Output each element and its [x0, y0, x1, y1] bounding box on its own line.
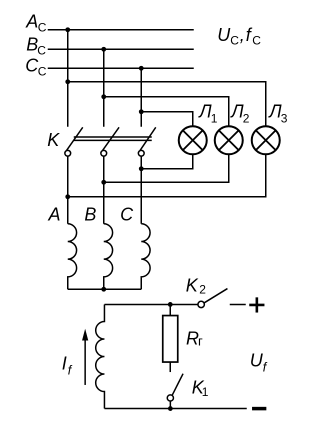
- wire vertical drop phase A: [67, 30, 69, 127]
- wire lamp3 bottom to generator A: [68, 155, 266, 197]
- field circuit bottom wire: [104, 408, 246, 410]
- switch K2: [198, 289, 246, 308]
- wire lamp1 feed from phase C: [141, 112, 193, 126]
- svg-text:f: f: [263, 360, 268, 374]
- node lamp3 return junction: [65, 194, 70, 199]
- wire bus line B: [48, 48, 194, 50]
- svg-text:1: 1: [202, 385, 209, 399]
- svg-text:K: K: [186, 275, 199, 295]
- svg-text:C: C: [38, 64, 47, 78]
- node bus B tap: [101, 47, 106, 52]
- wire lamp1 bottom to generator C: [141, 155, 193, 169]
- plus terminal: [249, 297, 264, 312]
- switch K contact circle pole A: [65, 150, 71, 156]
- svg-text:A: A: [25, 11, 38, 31]
- node lamp3 feed junction: [65, 79, 70, 84]
- lamp L2: [215, 126, 243, 154]
- switch K contact circle pole C: [138, 150, 144, 156]
- node bus A tap: [65, 27, 70, 32]
- node lamp1 return junction: [139, 166, 144, 171]
- wire lamp2 bottom to generator B: [104, 155, 229, 183]
- switch K link bar: [74, 136, 152, 138]
- svg-text:U: U: [217, 25, 231, 45]
- lamp L3: [252, 126, 280, 154]
- winding A (stator coil): [68, 224, 77, 290]
- switch K (3-pole): [67, 127, 156, 150]
- switch K contact circle pole B: [101, 150, 107, 156]
- resistor RG: [163, 304, 178, 372]
- wire star point: [68, 288, 142, 290]
- wire generator side vertical A: [67, 156, 69, 224]
- wire lamp2 feed from phase B: [104, 97, 229, 126]
- svg-text:C: C: [252, 33, 261, 47]
- svg-text:f: f: [68, 363, 73, 377]
- wire generator side vertical C: [140, 156, 142, 224]
- switch K1: [167, 374, 183, 409]
- switch K blade pole A: [67, 127, 83, 150]
- switch K blade pole C: [140, 127, 156, 150]
- minus terminal: [252, 407, 266, 411]
- field circuit top wire: [104, 303, 197, 305]
- svg-text:C: C: [230, 33, 239, 47]
- node star point: [101, 287, 106, 292]
- svg-text:A: A: [48, 205, 61, 225]
- node bus C tap: [139, 66, 144, 71]
- node lamp2 feed junction: [101, 94, 106, 99]
- svg-text:,: ,: [240, 25, 245, 45]
- wire generator side vertical B: [103, 156, 105, 224]
- wire lamp3 feed from phase A: [68, 82, 266, 126]
- svg-text:C: C: [120, 205, 134, 225]
- svg-text:C: C: [37, 43, 46, 57]
- wire bus line C: [48, 67, 194, 69]
- svg-text:I: I: [62, 353, 67, 373]
- wire vertical drop phase B: [103, 49, 105, 127]
- svg-text:1: 1: [211, 111, 218, 125]
- winding B (stator coil): [104, 224, 113, 290]
- winding C (stator coil): [141, 224, 150, 290]
- svg-text:C: C: [38, 20, 47, 34]
- svg-text:U: U: [250, 350, 264, 370]
- svg-text:2: 2: [243, 111, 250, 125]
- node K1 bottom junction: [168, 406, 173, 411]
- svg-text:B: B: [84, 205, 96, 225]
- svg-text:г: г: [198, 333, 203, 348]
- lamp L1: [179, 126, 207, 154]
- wire vertical drop phase C: [140, 68, 142, 127]
- field winding (rotor coil): [96, 304, 105, 408]
- svg-text:3: 3: [281, 111, 288, 125]
- current arrow If: [82, 329, 88, 385]
- node resistor top junction: [168, 302, 173, 307]
- svg-text:K: K: [47, 130, 60, 150]
- node lamp2 return junction: [101, 180, 106, 185]
- svg-text:2: 2: [199, 282, 206, 296]
- node lamp1 feed junction: [139, 109, 144, 114]
- wire bus line A: [48, 29, 194, 31]
- switch K blade pole B: [103, 127, 119, 150]
